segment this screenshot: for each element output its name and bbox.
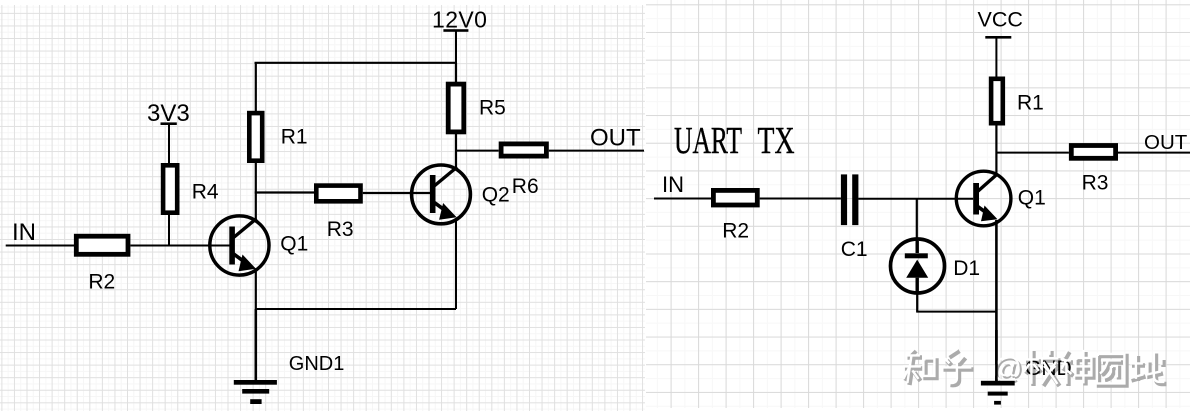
svg-text:Q1: Q1 xyxy=(280,233,308,256)
svg-text:12V0: 12V0 xyxy=(432,7,487,33)
svg-text:IN: IN xyxy=(12,219,36,246)
svg-text:R1: R1 xyxy=(1017,92,1044,115)
resistor R6 xyxy=(501,144,546,198)
svg-text:GND1: GND1 xyxy=(289,353,345,375)
wire to ground GND1 xyxy=(255,309,258,381)
svg-text:R3: R3 xyxy=(1082,172,1109,195)
wire Q1 emitter down xyxy=(255,270,257,309)
transistor Q2 xyxy=(412,165,510,224)
svg-text:C1: C1 xyxy=(841,238,868,261)
wire R4 to base rail xyxy=(168,215,170,246)
wire R1 to Q1 collector xyxy=(255,163,257,220)
power flag 3V3 xyxy=(147,100,190,165)
svg-text:UART: UART xyxy=(674,120,742,162)
capacitor C1 xyxy=(841,174,868,261)
wire R2 to Q1 base xyxy=(131,245,230,247)
wire node to R6 xyxy=(456,150,499,152)
wire node to R3 xyxy=(996,152,1069,154)
wire R6 to OUT xyxy=(549,150,644,152)
svg-text:IN: IN xyxy=(662,172,684,197)
text UART TX xyxy=(674,120,795,162)
resistor R1 xyxy=(991,79,1044,123)
power flag 12V0 xyxy=(432,7,487,64)
wire Q1 emitter to ground xyxy=(995,220,998,381)
resistor R1 xyxy=(249,113,307,161)
wire bottom rail xyxy=(916,311,996,313)
svg-text:R1: R1 xyxy=(281,126,308,149)
svg-text:Q2: Q2 xyxy=(482,184,510,207)
svg-text:TX: TX xyxy=(758,120,795,162)
wire R3 to Q2 base xyxy=(363,192,430,194)
watermark 知乎 @校神园地 xyxy=(903,349,1167,387)
resistor R2 xyxy=(76,236,128,293)
power flag VCC xyxy=(978,8,1023,77)
wire node to R3 xyxy=(255,191,314,193)
svg-text:D1: D1 xyxy=(953,257,980,280)
resistor R5 xyxy=(448,63,506,132)
resistor R2 xyxy=(713,190,757,242)
svg-text:R2: R2 xyxy=(722,220,749,243)
svg-text:R3: R3 xyxy=(327,218,354,241)
resistor R4 xyxy=(163,165,219,212)
wire node to D1 xyxy=(916,199,918,241)
svg-text:R6: R6 xyxy=(512,175,539,198)
svg-text:Q1: Q1 xyxy=(1018,187,1046,210)
wire IN to R2 xyxy=(654,198,711,200)
svg-text:R4: R4 xyxy=(192,181,219,204)
svg-text:OUT: OUT xyxy=(1144,131,1188,154)
wire R2 to C1 xyxy=(760,198,841,200)
wire D1 to bottom rail xyxy=(916,292,918,312)
wire R1 to Q1 collector xyxy=(995,126,997,176)
svg-text:R2: R2 xyxy=(88,271,115,294)
svg-text:OUT: OUT xyxy=(590,125,641,152)
wire top rail xyxy=(255,62,457,64)
transistor Q1 xyxy=(956,171,1046,226)
wire C1 to Q1 base xyxy=(858,198,973,200)
ground GND (right) xyxy=(981,330,1015,405)
wire bottom rail xyxy=(256,308,456,310)
svg-text:R5: R5 xyxy=(479,97,506,120)
wire R5 to node xyxy=(455,134,457,169)
svg-text:VCC: VCC xyxy=(978,8,1023,32)
transistor Q1 xyxy=(210,216,309,275)
wire Q2 emitter down xyxy=(455,220,457,309)
wire IN to R2 xyxy=(6,245,74,247)
ground GND1 xyxy=(234,353,345,404)
diode D1 xyxy=(891,239,981,293)
wire rail to R1 xyxy=(255,63,257,113)
wire R3 to OUT edge xyxy=(1118,152,1190,154)
resistor R3 xyxy=(316,186,360,241)
resistor R3 xyxy=(1071,146,1115,195)
